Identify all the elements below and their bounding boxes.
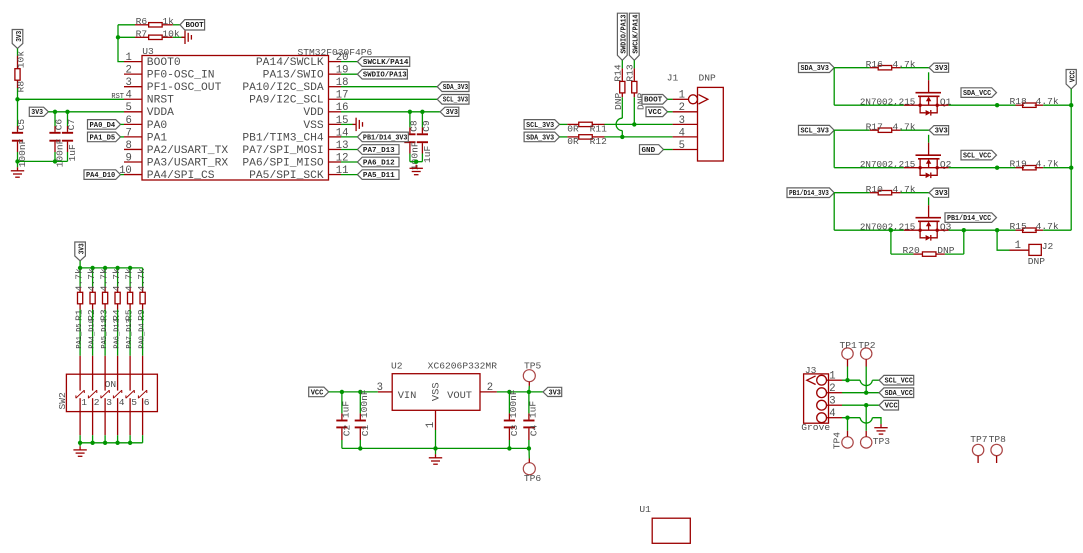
junction pullup column 4 — [115, 266, 119, 270]
junction C2 tap — [340, 390, 344, 394]
wire source side of Q1 — [834, 104, 904, 106]
wire C8 to ground bus — [409, 154, 411, 162]
junction ground bus column 2 — [90, 441, 94, 445]
svg-text:TP3: TP3 — [873, 436, 891, 447]
junction ground bus VSS — [433, 446, 437, 450]
label flag SCL_3V3 — [437, 95, 469, 105]
wire VCC bus vertical — [1070, 89, 1072, 230]
svg-text:R10: R10 — [866, 184, 884, 195]
svg-text:7: 7 — [125, 127, 131, 139]
wire TP6 to ground bus — [528, 448, 530, 458]
wire R20 row right — [945, 253, 964, 255]
wire 3V3 to R1 — [79, 268, 81, 287]
svg-text:1: 1 — [829, 371, 835, 383]
supply flag 3V3 at VOUT — [543, 387, 562, 396]
TP5 pin stub — [528, 382, 530, 386]
SW2 switch element 1 — [76, 374, 84, 411]
svg-text:C2: C2 — [341, 425, 352, 437]
ground bus under SW2 — [80, 442, 143, 444]
svg-text:VIN: VIN — [398, 390, 417, 402]
svg-text:R5: R5 — [123, 309, 134, 321]
svg-text:RST: RST — [111, 93, 124, 101]
IC U3 STM32F030F4P6 body — [142, 56, 329, 181]
svg-text:C9: C9 — [421, 120, 432, 132]
svg-text:C3: C3 — [509, 425, 520, 437]
test point TP1 circle — [842, 348, 853, 359]
J1 pin1 arrow marker — [699, 95, 708, 104]
wire J3 pin4 GND net — [842, 417, 860, 419]
svg-text:R6: R6 — [136, 16, 148, 27]
wire PA1 flag to pin7 — [121, 136, 125, 138]
test point TP7 circle — [972, 444, 983, 455]
label flag VCC at J3 — [879, 400, 898, 410]
J2 pin 1 stub — [1010, 249, 1029, 251]
capacitor C5 100nF — [17, 126, 19, 132]
resistor R16 4.7k — [870, 67, 879, 69]
junction ground bus column 4 — [115, 441, 119, 445]
wire TP1 to pin1 net — [847, 367, 849, 381]
SW2 pin 2 top stub — [92, 356, 94, 374]
capacitor C9 1uF — [421, 127, 423, 133]
wire R8 to junction — [17, 88, 19, 99]
J3 pin 4 stub — [827, 417, 843, 419]
resistor R5 4.7k vertical — [129, 287, 131, 293]
wire C4 column upper — [528, 392, 530, 414]
wire R7 left — [118, 36, 135, 38]
label flag SCL_3V3 — [799, 125, 835, 135]
wire R1 to SW2 pin — [79, 310, 81, 356]
svg-text:1: 1 — [679, 90, 685, 102]
resistor R20 DNP — [914, 253, 923, 255]
SW2 pin 5 bottom stub — [129, 412, 131, 436]
junction ground bus column 3 — [103, 441, 107, 445]
svg-text:R12: R12 — [590, 136, 608, 147]
label flag VCC at U2 input — [309, 387, 329, 397]
ground symbol below SW2 — [79, 446, 81, 450]
ground symbol at J3 pin4 — [880, 424, 882, 428]
wire pin15 VSS to ground — [341, 123, 353, 125]
wire R16 to 3V3 flag — [901, 67, 930, 69]
wire stub to ground — [17, 161, 19, 167]
svg-text:2N7002,215: 2N7002,215 — [860, 97, 916, 108]
svg-text:SDA_3V3: SDA_3V3 — [801, 65, 830, 73]
svg-text:4: 4 — [119, 397, 125, 408]
junction at R19 left — [995, 166, 999, 170]
test point TP8 circle — [991, 444, 1002, 455]
svg-text:3V3: 3V3 — [16, 30, 24, 41]
svg-text:1uF: 1uF — [527, 401, 538, 419]
ground symbol below C8 C9 — [415, 165, 417, 169]
SW2 switch element 6 — [138, 374, 146, 411]
test point TP4 circle — [842, 437, 853, 448]
svg-text:2: 2 — [125, 65, 131, 77]
svg-text:PA6_D12: PA6_D12 — [114, 319, 122, 348]
resistor R18 4.7k — [997, 104, 1015, 106]
U3 pin 5 stub (left) — [124, 111, 142, 113]
gate pin of Q3 — [928, 205, 930, 218]
svg-text:R13: R13 — [625, 64, 636, 82]
wire left vertical PB1/D14_3V3 to source — [833, 193, 835, 231]
svg-text:DNP: DNP — [699, 73, 717, 84]
SW2 pin 1 top stub — [79, 356, 81, 374]
svg-text:SWCLK/PA14: SWCLK/PA14 — [633, 14, 641, 53]
label flag PA5_D11 — [357, 170, 399, 180]
svg-text:SCL_3V3: SCL_3V3 — [443, 97, 469, 105]
J3 pin 1 circle — [817, 375, 827, 385]
svg-text:VSS: VSS — [303, 120, 324, 132]
wire SW2 pin 2 to ground bus — [92, 435, 94, 443]
TP4 pin stub — [847, 431, 849, 437]
gate pin of Q1 — [928, 80, 930, 93]
resistor R6 1k — [135, 24, 148, 26]
label flag GND at J1 pin5 — [640, 145, 664, 155]
wire R11 to J1 pin3 SCL net — [605, 123, 673, 125]
source/drain pins of Q3 — [904, 229, 949, 231]
wire J2 from Q3 drain junction — [997, 230, 1009, 250]
J3 pin 3 circle — [817, 400, 827, 410]
supply flag 3V3 at SW2 pullups — [75, 242, 86, 261]
svg-text:4: 4 — [679, 127, 685, 139]
U3 pin 19 stub (right) — [329, 73, 342, 75]
supply flag VCC vertical at right bus — [1066, 70, 1076, 89]
label flag SDA_3V3 — [799, 63, 835, 73]
svg-text:PA10/I2C_SDA: PA10/I2C_SDA — [242, 82, 324, 94]
svg-text:Q2: Q2 — [940, 159, 952, 170]
svg-text:4.7k: 4.7k — [86, 268, 97, 291]
wire C8 column upper — [409, 112, 411, 128]
TP6 pin stub — [528, 459, 530, 463]
source/drain pins of Q2 — [904, 167, 949, 169]
U3 pin 4 stub (left) — [124, 98, 142, 100]
transistor Q1 2N7002,215 N-MOSFET — [916, 93, 942, 116]
label flag BOOT — [180, 20, 205, 30]
svg-text:C4: C4 — [528, 425, 539, 437]
vertical label flag SWDIO/PA13 at R14 — [617, 13, 627, 60]
svg-text:1: 1 — [81, 397, 87, 408]
svg-text:PA0_D4: PA0_D4 — [90, 122, 116, 130]
svg-text:0R: 0R — [567, 123, 579, 134]
U3 pin 3 stub (left) — [124, 86, 142, 88]
svg-text:Grove: Grove — [801, 422, 830, 433]
U3 pin 13 stub (right) — [329, 148, 342, 150]
junction C8 tap VDD — [408, 110, 412, 114]
SW2 pin 6 bottom stub — [142, 412, 144, 436]
TP8 pin stub — [996, 456, 998, 463]
svg-text:PA13/SWIO: PA13/SWIO — [263, 70, 324, 82]
test point TP3 circle — [861, 437, 872, 448]
svg-text:U1: U1 — [639, 504, 651, 515]
svg-text:C5: C5 — [16, 119, 27, 131]
resistor R17 4.7k — [870, 129, 879, 131]
wire R2 to SW2 pin — [92, 310, 94, 356]
svg-text:SW2: SW2 — [57, 392, 68, 410]
wire hop arc over TP2 column — [860, 380, 872, 385]
svg-text:J1: J1 — [667, 73, 679, 84]
wire SW2 pin 3 to ground bus — [104, 435, 106, 443]
U3 pin 12 stub (right) — [329, 161, 342, 163]
SW2 pin 2 bottom stub — [92, 412, 94, 436]
capacitor C2 1uF — [341, 413, 343, 419]
supply flag 3V3 at Q2 gate — [929, 126, 949, 135]
wire C9 to ground bus — [421, 154, 423, 162]
wire SCL_3V3 to pullup R17 — [834, 129, 870, 131]
wire source side of Q2 — [834, 167, 904, 169]
wire pin12 to flag — [341, 161, 357, 163]
resistor R3 4.7k vertical — [104, 287, 106, 293]
U3 pin 2 stub (left) — [124, 73, 142, 75]
label flag SCL_VCC — [961, 150, 997, 160]
J1 pin 5 stub — [673, 149, 698, 151]
wire C7 to ground bus — [67, 152, 69, 161]
J1 pin 2 stub — [673, 111, 698, 113]
wire J3 pin1 SCL_VCC net — [842, 379, 860, 381]
label flag SCL_VCC at J3 — [879, 375, 914, 385]
svg-text:2: 2 — [829, 383, 835, 395]
J1 pin1 circle marker — [689, 95, 698, 104]
wire PB1/D14_3V3 to pullup R10 — [834, 192, 870, 194]
ground bus under C8 C9 — [410, 161, 423, 163]
label flag PA6_D12 — [357, 157, 399, 167]
SW2 switch element 3 — [101, 374, 109, 411]
supply flag 3V3 top-left — [12, 30, 23, 49]
wire C1 column upper — [359, 392, 361, 414]
U2 pin 3 stub — [378, 391, 392, 393]
svg-text:1uF: 1uF — [422, 145, 433, 163]
svg-text:PA7_D13: PA7_D13 — [363, 147, 395, 155]
wire left vertical SDA_3V3 to source — [833, 68, 835, 106]
label flag PB1/D14_3V3 — [357, 132, 408, 142]
wire TP3 to pin3 net crossing pin4 — [865, 405, 867, 431]
svg-text:3: 3 — [679, 115, 685, 127]
junction pullup column 1 — [78, 266, 82, 270]
label flag PA0_D4 — [88, 120, 121, 130]
wire C4 to ground bus — [528, 440, 530, 448]
capacitor C1 100nF — [359, 413, 361, 419]
SW2 pin 1 bottom stub — [79, 412, 81, 436]
U3 pin 18 stub (right) — [329, 86, 342, 88]
capacitor C8 100nF — [409, 127, 411, 133]
label flag PA7_D13 — [357, 145, 399, 155]
svg-text:PA9/I2C_SCL: PA9/I2C_SCL — [249, 95, 324, 107]
svg-text:3: 3 — [829, 396, 835, 408]
svg-text:4.7k: 4.7k — [1036, 221, 1059, 232]
svg-text:3V3: 3V3 — [31, 109, 43, 117]
svg-text:ON: ON — [105, 379, 117, 390]
svg-text:XC6206P332MR: XC6206P332MR — [428, 360, 498, 371]
wire 3V3 to R9 — [142, 268, 144, 287]
wire C7 column upper — [67, 112, 69, 126]
TP3 pin stub — [865, 431, 867, 437]
SW2 pin 3 top stub — [104, 356, 106, 374]
wire vertical junction column to U3 pin 1 — [118, 25, 124, 62]
junction at R18 left — [995, 103, 999, 107]
svg-text:VSS: VSS — [430, 382, 442, 401]
wire R9 to SW2 pin — [142, 310, 144, 356]
capacitor C6 100nF — [54, 126, 56, 132]
svg-text:C7: C7 — [66, 119, 77, 131]
svg-text:R9: R9 — [136, 309, 147, 321]
svg-text:SCL_3V3: SCL_3V3 — [526, 122, 555, 130]
svg-text:SWDIO/PA13: SWDIO/PA13 — [621, 14, 629, 53]
junction C6 tap — [53, 110, 57, 114]
supply flag 3V3 at Q1 gate — [929, 63, 949, 72]
test point TP6 circle — [523, 463, 535, 475]
svg-text:TP6: TP6 — [524, 473, 542, 484]
IC U2 XC6206P332MR body — [392, 374, 480, 411]
svg-text:1k: 1k — [162, 16, 174, 27]
wire SW2 pin 1 to ground bus — [79, 435, 81, 443]
svg-text:PB1/D14_3V3: PB1/D14_3V3 — [789, 190, 829, 198]
svg-text:PA5_D11: PA5_D11 — [101, 319, 109, 348]
junction ground bus C5 — [15, 159, 19, 163]
SW2 switch element 4 — [113, 374, 121, 411]
capacitor C4 1uF — [528, 413, 530, 419]
svg-text:6: 6 — [125, 115, 131, 127]
svg-text:PA1: PA1 — [147, 132, 168, 144]
svg-text:C1: C1 — [360, 425, 371, 437]
junction at R15 left — [995, 228, 999, 232]
svg-text:Q3: Q3 — [940, 222, 952, 233]
wire pin19 to SWDIO flag — [341, 73, 357, 75]
wire J3 pin3 VCC net — [842, 404, 879, 406]
wire net RST to U3 NRST pin4 — [18, 98, 125, 100]
svg-text:PA4/SPI_CS: PA4/SPI_CS — [147, 170, 215, 182]
J1 pin 4 stub — [673, 136, 698, 138]
svg-text:PA1_D5: PA1_D5 — [76, 323, 84, 348]
svg-text:R14: R14 — [613, 64, 624, 82]
svg-text:5: 5 — [131, 397, 137, 408]
ground symbol at R7 — [181, 36, 185, 38]
J3 pin 1 stub — [827, 379, 843, 381]
svg-text:4.7k: 4.7k — [98, 268, 109, 291]
wire R17 to 3V3 flag — [901, 129, 930, 131]
svg-text:4.7k: 4.7k — [123, 268, 134, 291]
junction TP1 on pin1 net — [845, 378, 849, 382]
wire R20 row left — [891, 253, 914, 255]
svg-text:SWDIO/PA13: SWDIO/PA13 — [363, 72, 407, 80]
svg-text:PA4_D10: PA4_D10 — [86, 172, 116, 180]
gate pin of Q2 — [928, 143, 930, 156]
switch SW2 body — [66, 374, 157, 411]
svg-text:SDA_3V3: SDA_3V3 — [526, 134, 555, 142]
svg-text:4.7k: 4.7k — [136, 268, 147, 291]
svg-text:SWCLK/PA14: SWCLK/PA14 — [363, 59, 409, 67]
svg-text:2N7002,215: 2N7002,215 — [860, 222, 916, 233]
resistor R9 4.7k vertical — [142, 287, 144, 293]
label flag SDA_3V3 — [437, 82, 469, 92]
ground symbol below C5 — [17, 167, 19, 171]
wire C2 column upper — [341, 392, 343, 414]
label flag PB1/D14_VCC — [945, 213, 997, 223]
svg-text:BOOT: BOOT — [644, 97, 663, 105]
wire SW2 pin 6 to ground bus — [142, 435, 144, 443]
svg-text:10k: 10k — [162, 29, 180, 40]
svg-text:PA1_D5: PA1_D5 — [90, 134, 116, 142]
wire source side of Q3 — [834, 229, 904, 231]
svg-text:U2: U2 — [391, 360, 403, 371]
supply flag 3V3 at VDD — [440, 107, 459, 116]
wire R12 to J1 pin4 SDA net — [605, 136, 673, 138]
wire pin20 to SWCLK flag — [341, 61, 357, 63]
wire pin17 SCL_3V3 net — [341, 98, 437, 100]
label flag SCL_3V3 (to R11) — [524, 120, 559, 130]
junction on BOOT0 net at R7 — [116, 35, 120, 39]
resistor R7 10k — [135, 36, 148, 38]
wire J3 pin2 SDA_VCC net — [842, 392, 879, 394]
svg-text:4: 4 — [125, 90, 131, 102]
wire SW2 pin 4 to ground bus — [117, 435, 119, 443]
label flag PA4_D10 — [84, 170, 121, 180]
SW2 pin 5 top stub — [129, 356, 131, 374]
resistor R10 4.7k — [870, 192, 879, 194]
junction TP4 on pin4 net — [845, 416, 849, 420]
svg-text:R2: R2 — [86, 309, 97, 321]
junction C3 tap VOUT — [507, 390, 511, 394]
svg-text:5: 5 — [125, 102, 131, 114]
svg-text:R4: R4 — [111, 309, 122, 321]
svg-text:R20: R20 — [903, 245, 921, 256]
wire TP4 to pin4 net — [847, 418, 849, 431]
wire R4 to SW2 pin — [117, 310, 119, 356]
wire TP5 to VOUT net — [528, 386, 530, 392]
junction bus row2 — [1069, 166, 1073, 170]
supply flag 3V3 at Q3 gate — [929, 188, 949, 197]
wire pin11 to flag — [341, 174, 357, 176]
wire C1 to ground bus — [359, 440, 361, 448]
svg-text:1: 1 — [1015, 240, 1021, 252]
svg-text:8: 8 — [125, 140, 131, 152]
svg-text:PB1/TIM3_CH4: PB1/TIM3_CH4 — [242, 132, 324, 144]
resistor R19 4.7k — [997, 167, 1015, 169]
wire drain of Q1 to R18 — [949, 104, 998, 106]
vertical label flag SWCLK/PA14 at R13 — [629, 13, 639, 60]
SW2 pin 4 top stub — [117, 356, 119, 374]
svg-text:C6: C6 — [54, 119, 65, 131]
U3 pin 10 stub (left) — [124, 174, 142, 176]
junction ground bus column 5 — [128, 441, 132, 445]
wire R14 down with hop over SCL net — [621, 97, 623, 118]
svg-text:PA5_D11: PA5_D11 — [363, 172, 395, 180]
ground bus under U2 — [342, 447, 529, 449]
wire flag to R12 — [560, 136, 568, 138]
svg-text:VOUT: VOUT — [447, 390, 472, 402]
resistor R13 DNP vertical — [633, 68, 635, 81]
wire R7 to ground — [173, 36, 184, 38]
resistor R4 4.7k vertical — [117, 287, 119, 293]
svg-text:PB1/D14_3V3: PB1/D14_3V3 — [363, 134, 408, 142]
svg-text:R1: R1 — [73, 309, 84, 321]
svg-text:PA4_D10: PA4_D10 — [89, 319, 97, 348]
svg-text:VDDA: VDDA — [147, 107, 174, 119]
svg-text:R3: R3 — [98, 309, 109, 321]
svg-text:3V3: 3V3 — [549, 389, 562, 397]
svg-text:PA14/SWCLK: PA14/SWCLK — [256, 57, 324, 69]
wire PA0 flag to pin6 — [121, 123, 125, 125]
svg-text:3V3: 3V3 — [935, 65, 949, 73]
svg-text:J2: J2 — [1042, 241, 1054, 252]
junction TP2 on pin2 net — [864, 391, 868, 395]
junction ground bus C3 — [507, 446, 511, 450]
svg-text:4.7k: 4.7k — [111, 268, 122, 291]
U3 pin 14 stub (right) — [329, 136, 342, 138]
junction ground bus C1 — [358, 446, 362, 450]
U3 pin 1 stub (left) — [124, 61, 142, 63]
label flag SDA_VCC at J3 — [879, 388, 914, 398]
junction R14 on SDA net — [620, 135, 624, 139]
svg-text:3: 3 — [106, 397, 112, 408]
transistor Q3 2N7002,215 N-MOSFET — [916, 218, 942, 241]
U3 pin 16 stub (right) — [329, 111, 342, 113]
